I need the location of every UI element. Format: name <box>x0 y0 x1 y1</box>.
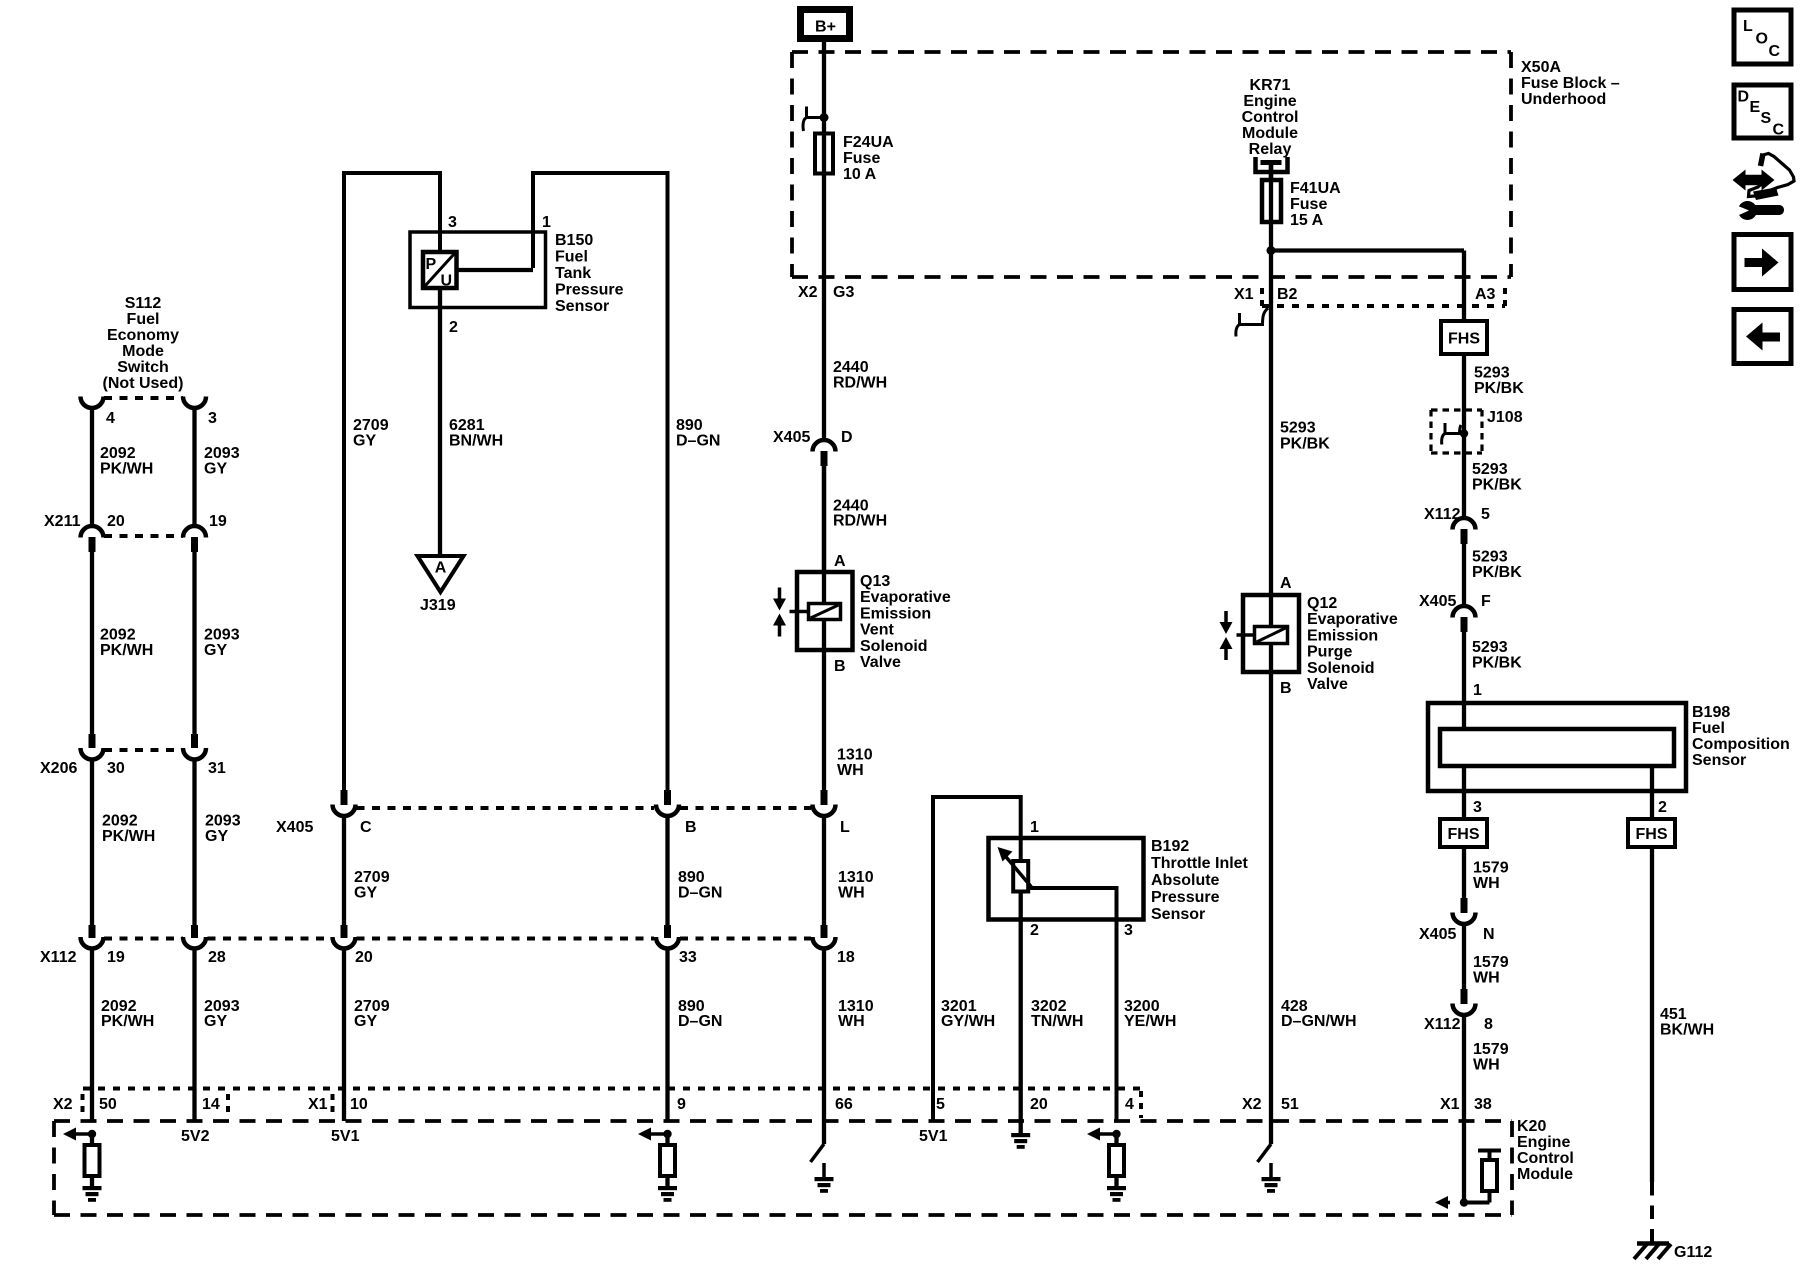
svg-text:1: 1 <box>542 214 551 231</box>
svg-text:2440: 2440 <box>833 359 869 376</box>
svg-text:Module: Module <box>1242 125 1298 142</box>
svg-text:TN/WH: TN/WH <box>1031 1013 1083 1030</box>
svg-text:451: 451 <box>1660 1006 1687 1023</box>
fuse F24UA 10 A <box>815 134 833 174</box>
svg-text:Control: Control <box>1242 109 1299 126</box>
icon DESC box <box>1734 85 1791 138</box>
B192 potentiometer arrow <box>1004 855 1031 887</box>
sensor B192 box <box>989 838 1144 920</box>
svg-text:E: E <box>1750 99 1761 116</box>
wire B150 pin2 through sensor <box>438 288 442 554</box>
wire 2092 PK/WH segment X211.20 to X206.30 <box>90 551 94 734</box>
connector X405 cavity pin F <box>1453 606 1476 618</box>
ground symbol at pin 66 <box>815 1177 834 1181</box>
svg-text:X1: X1 <box>1440 1096 1460 1113</box>
svg-text:X211: X211 <box>44 513 81 530</box>
svg-text:Pressure: Pressure <box>555 282 624 299</box>
wire 890 D-GN segment X112.33 to ECM pin 9 <box>665 948 669 1121</box>
svg-text:Engine: Engine <box>1517 1134 1570 1151</box>
icon LOC box <box>1734 10 1791 64</box>
svg-text:1: 1 <box>1030 819 1039 836</box>
connector X206 terminal pin 31 <box>191 734 198 748</box>
svg-text:GY/WH: GY/WH <box>941 1013 995 1030</box>
svg-text:F24UA: F24UA <box>843 134 894 151</box>
svg-text:N: N <box>1483 926 1495 943</box>
svg-text:Module: Module <box>1517 1166 1573 1183</box>
svg-text:18: 18 <box>837 949 855 966</box>
svg-text:1310: 1310 <box>837 747 873 764</box>
svg-text:X2: X2 <box>798 284 818 301</box>
svg-text:2092: 2092 <box>102 813 138 830</box>
svg-text:Fuel: Fuel <box>1692 720 1725 737</box>
connector X405 terminal pin C <box>341 790 348 805</box>
svg-text:L: L <box>840 819 850 836</box>
svg-text:Tank: Tank <box>555 265 591 282</box>
wire 5293 PK/BK X112.5 to X405.F <box>1462 543 1466 606</box>
svg-text:Throttle Inlet: Throttle Inlet <box>1151 855 1249 872</box>
svg-text:X2: X2 <box>53 1096 73 1113</box>
svg-text:890: 890 <box>676 417 703 434</box>
wire 2093 GY segment X206.31 to X112.28 <box>192 759 196 925</box>
svg-text:Mode: Mode <box>122 343 164 360</box>
connector X405 terminal pin B <box>664 790 671 805</box>
ground symbol at pin 50 <box>83 1186 102 1190</box>
power feed B+ box <box>801 10 850 39</box>
svg-text:X405: X405 <box>773 429 810 446</box>
svg-text:WH: WH <box>838 1013 865 1030</box>
svg-text:Q13: Q13 <box>860 573 890 590</box>
svg-text:31: 31 <box>208 760 226 777</box>
svg-text:2: 2 <box>449 319 458 336</box>
svg-text:6281: 6281 <box>449 417 485 434</box>
svg-text:20: 20 <box>1030 1096 1048 1113</box>
Q13 valve symbol <box>778 588 782 599</box>
svg-text:B150: B150 <box>555 232 593 249</box>
svg-text:2093: 2093 <box>204 445 240 462</box>
svg-text:KR71: KR71 <box>1250 77 1291 94</box>
svg-text:5V1: 5V1 <box>919 1128 948 1145</box>
svg-text:Control: Control <box>1517 1150 1574 1167</box>
svg-text:D–GN: D–GN <box>678 1013 722 1030</box>
svg-text:Emission: Emission <box>1307 627 1378 644</box>
wire 2092 PK/WH segment X112.19 to ECM X2.50 <box>90 948 94 1121</box>
solenoid valve Q13 box <box>797 572 853 650</box>
wire 1579 WH FHS to X405.N <box>1462 847 1466 898</box>
svg-text:D: D <box>841 429 853 446</box>
svg-text:19: 19 <box>107 949 125 966</box>
svg-text:2: 2 <box>1030 922 1039 939</box>
svg-text:Absolute: Absolute <box>1151 872 1220 889</box>
wire junction to A3 <box>1271 248 1464 252</box>
svg-text:20: 20 <box>107 513 125 530</box>
svg-text:Emission: Emission <box>860 605 931 622</box>
svg-text:S: S <box>1761 110 1772 127</box>
svg-text:WH: WH <box>1473 1057 1500 1074</box>
svg-text:PK/BK: PK/BK <box>1472 477 1522 494</box>
connector X1 row of fuse block (dotted) <box>1262 304 1505 308</box>
svg-text:33: 33 <box>679 949 697 966</box>
svg-text:5: 5 <box>1481 506 1490 523</box>
Q12 coil stub <box>1237 633 1255 637</box>
svg-text:1310: 1310 <box>838 869 874 886</box>
svg-text:9: 9 <box>677 1096 686 1113</box>
svg-text:1579: 1579 <box>1473 954 1509 971</box>
svg-text:Solenoid: Solenoid <box>860 638 928 655</box>
svg-text:5: 5 <box>936 1096 945 1113</box>
clip symbol at F24UA feed <box>803 107 824 132</box>
svg-text:K20: K20 <box>1517 1118 1546 1135</box>
svg-text:66: 66 <box>835 1096 853 1113</box>
ECM internal: pin 50 resistor <box>90 1134 94 1145</box>
wire 2092 PK/WH segment X206.30 to X112.19 <box>90 759 94 925</box>
svg-text:D: D <box>1738 89 1750 106</box>
svg-text:Fuse: Fuse <box>1290 196 1327 213</box>
svg-text:X112: X112 <box>1424 506 1461 523</box>
svg-text:L: L <box>1743 18 1753 35</box>
svg-text:1: 1 <box>1473 682 1482 699</box>
svg-text:Q12: Q12 <box>1307 595 1337 612</box>
svg-text:4: 4 <box>106 410 115 427</box>
ECM internal: pin 20 ground lead <box>1019 1121 1023 1133</box>
svg-text:PK/WH: PK/WH <box>100 642 153 659</box>
relay KR71 contact symbol <box>1256 157 1288 172</box>
Q12 valve symbol <box>1224 611 1228 622</box>
svg-text:GY: GY <box>205 828 228 845</box>
svg-text:B: B <box>1280 680 1292 697</box>
wire 2709 GY segment X405.C to X112.20 <box>342 815 346 925</box>
ground G112 symbol <box>1637 1241 1669 1246</box>
splice FHS box (pin 2) <box>1628 819 1675 847</box>
svg-text:3: 3 <box>448 214 457 231</box>
ECM internal: pin 9 resistor <box>665 1134 669 1145</box>
wire 2093 GY segment X112.28 to ECM X2.14 <box>192 948 196 1121</box>
ground symbol at pin 9 <box>658 1186 677 1190</box>
svg-text:C: C <box>360 819 372 836</box>
svg-text:Valve: Valve <box>860 654 901 671</box>
B150 P/U transducer symbol <box>423 252 457 288</box>
svg-text:BN/WH: BN/WH <box>449 433 503 450</box>
svg-text:PK/BK: PK/BK <box>1472 564 1522 581</box>
wire B198.3 down <box>1462 766 1466 819</box>
splice J108 dashed box <box>1431 408 1482 411</box>
svg-text:2709: 2709 <box>353 417 389 434</box>
icon forward arrow box <box>1734 235 1791 290</box>
module K20 ECM dashed box <box>54 1119 1512 1123</box>
svg-text:YE/WH: YE/WH <box>1124 1013 1176 1030</box>
B192 potentiometer element <box>1013 861 1028 892</box>
svg-text:WH: WH <box>1473 875 1500 892</box>
svg-text:B198: B198 <box>1692 704 1730 721</box>
Q12 solenoid coil <box>1255 627 1288 644</box>
svg-text:890: 890 <box>678 869 705 886</box>
svg-text:GY: GY <box>354 1013 377 1030</box>
svg-text:Fuel: Fuel <box>555 249 588 266</box>
svg-text:2093: 2093 <box>205 813 241 830</box>
B192 wiper wire <box>1029 888 1117 1121</box>
wire 5293 PK/BK X405.F to B198.1 <box>1462 631 1466 729</box>
connector X112 terminal pin 28 <box>191 925 198 938</box>
svg-text:5293: 5293 <box>1472 549 1508 566</box>
svg-text:5293: 5293 <box>1472 461 1508 478</box>
svg-text:15 A: 15 A <box>1290 212 1324 229</box>
svg-text:1579: 1579 <box>1473 860 1509 877</box>
svg-text:X50A: X50A <box>1521 59 1561 76</box>
connector X112 terminal pin 33 <box>664 925 671 938</box>
svg-text:X405: X405 <box>1419 926 1456 943</box>
svg-text:Switch: Switch <box>117 359 169 376</box>
splice FHS box <box>1441 321 1487 354</box>
svg-text:Composition: Composition <box>1692 736 1790 753</box>
svg-text:A: A <box>435 560 447 577</box>
svg-text:Sensor: Sensor <box>1692 752 1746 769</box>
junction node <box>1267 246 1276 255</box>
clip symbol below B2 <box>1236 308 1268 337</box>
svg-text:Fuse: Fuse <box>843 150 880 167</box>
connector X405 terminal pin L <box>821 790 828 805</box>
wire through Q13 <box>822 466 826 790</box>
ECM internal: pin 4 resistor <box>1114 1134 1118 1145</box>
svg-text:J319: J319 <box>420 597 456 614</box>
wire F41UA to junction <box>1269 162 1273 672</box>
svg-text:X405: X405 <box>276 819 313 836</box>
svg-text:Valve: Valve <box>1307 676 1348 693</box>
svg-text:C: C <box>1769 43 1781 60</box>
connector X112 terminal pin 19 <box>89 925 96 938</box>
svg-text:3: 3 <box>1124 922 1133 939</box>
svg-text:Economy: Economy <box>107 327 179 344</box>
wire A3 to FHS <box>1462 251 1466 322</box>
fuse F41UA 15 A <box>1262 180 1281 222</box>
svg-text:10: 10 <box>350 1096 368 1113</box>
wire B198.2 down <box>1650 766 1654 819</box>
svg-text:4: 4 <box>1125 1096 1134 1113</box>
svg-text:B: B <box>685 819 697 836</box>
wire 1579 WH X405.N to X112.8 <box>1462 923 1466 989</box>
svg-text:30: 30 <box>107 760 125 777</box>
svg-text:RD/WH: RD/WH <box>833 513 887 530</box>
svg-text:A3: A3 <box>1475 286 1496 303</box>
svg-text:10 A: 10 A <box>843 166 877 183</box>
svg-text:X405: X405 <box>1419 593 1456 610</box>
wire 2709 GY segment X112.20 to ECM X1.10 <box>342 948 346 1121</box>
wire B+ to fuse F24UA <box>822 42 826 440</box>
svg-text:S112: S112 <box>125 295 162 312</box>
connector X206 row (dashed) <box>104 748 183 752</box>
splice FHS box (pin 3) <box>1440 819 1487 847</box>
ground symbol at pin 20 <box>1011 1133 1030 1137</box>
svg-text:PK/BK: PK/BK <box>1280 436 1330 453</box>
svg-text:FHS: FHS <box>1448 331 1480 348</box>
connector X405 row (dashed) <box>357 806 655 810</box>
S112 pin 3 connector cavity <box>183 397 206 409</box>
svg-text:38: 38 <box>1474 1096 1492 1113</box>
svg-text:Purge: Purge <box>1307 644 1352 661</box>
svg-text:Solenoid: Solenoid <box>1307 660 1375 677</box>
svg-text:2092: 2092 <box>100 627 136 644</box>
connector X112 row (dashed) <box>104 937 183 941</box>
wire 5293 PK/BK FHS to J108 <box>1462 354 1466 518</box>
svg-text:2092: 2092 <box>100 445 136 462</box>
svg-text:Engine: Engine <box>1243 93 1296 110</box>
svg-text:2093: 2093 <box>204 627 240 644</box>
icon back arrow box <box>1734 310 1791 364</box>
svg-text:Underhood: Underhood <box>1521 91 1606 108</box>
svg-text:PK/WH: PK/WH <box>101 1013 154 1030</box>
svg-text:5293: 5293 <box>1472 639 1508 656</box>
svg-text:14: 14 <box>202 1096 220 1113</box>
svg-text:FHS: FHS <box>1448 826 1480 843</box>
wire 2709 GY top loop B150.3 <box>344 173 440 790</box>
clip symbol inside J108 <box>1442 423 1461 445</box>
svg-text:5293: 5293 <box>1280 420 1316 437</box>
svg-text:Fuse Block –: Fuse Block – <box>1521 75 1620 92</box>
wire 1310 WH segment X112.18 to ECM pin 66 <box>822 948 826 1121</box>
connector X405 terminal pin N <box>1461 898 1468 913</box>
svg-text:GY: GY <box>204 642 227 659</box>
connector X211 cavity pin 20 <box>81 526 104 538</box>
svg-text:5V2: 5V2 <box>181 1128 210 1145</box>
svg-text:GY: GY <box>353 433 376 450</box>
svg-text:Evaporative: Evaporative <box>1307 611 1398 628</box>
svg-text:PK/WH: PK/WH <box>102 828 155 845</box>
svg-text:Relay: Relay <box>1249 141 1292 158</box>
svg-text:WH: WH <box>1473 970 1500 987</box>
svg-text:J108: J108 <box>1487 409 1523 426</box>
wire 1579 WH X112.8 to ECM X1.38 <box>1462 1014 1466 1121</box>
ground symbol at pin 51 <box>1262 1177 1281 1181</box>
ECM pin row (dotted) <box>83 1087 1141 1091</box>
connector X112 terminal pin 20 <box>341 925 348 938</box>
svg-text:X2: X2 <box>1242 1096 1262 1113</box>
splice pack J319 (triangle A) <box>418 556 464 592</box>
svg-text:GY: GY <box>204 461 227 478</box>
wire 1310 WH segment X405.L to X112.18 <box>822 815 826 925</box>
wire 3202 TN/WH from B192.2 <box>1019 892 1023 1122</box>
connector X211 row (dashed) <box>104 534 183 538</box>
svg-text:Sensor: Sensor <box>555 298 609 315</box>
svg-text:GY: GY <box>354 885 377 902</box>
svg-text:PK/BK: PK/BK <box>1474 380 1524 397</box>
svg-text:PK/BK: PK/BK <box>1472 655 1522 672</box>
connector X206 terminal pin 30 <box>89 734 96 748</box>
svg-text:B2: B2 <box>1277 286 1298 303</box>
svg-text:X112: X112 <box>1424 1016 1461 1033</box>
svg-text:FHS: FHS <box>1636 826 1668 843</box>
wire 2093 GY segment S112.3 to X211.19 <box>192 407 196 527</box>
connector X112 terminal pin 8 <box>1461 989 1468 1004</box>
svg-text:F: F <box>1481 593 1491 610</box>
svg-text:5V1: 5V1 <box>331 1128 360 1145</box>
svg-text:1579: 1579 <box>1473 1041 1509 1058</box>
svg-text:20: 20 <box>355 949 373 966</box>
connector X405 cavity pin D <box>813 440 836 451</box>
svg-text:3: 3 <box>1473 799 1482 816</box>
svg-text:Fuel: Fuel <box>127 311 160 328</box>
svg-text:Evaporative: Evaporative <box>860 589 951 606</box>
svg-text:GY: GY <box>204 1013 227 1030</box>
svg-text:5293: 5293 <box>1474 365 1510 382</box>
svg-text:B: B <box>834 658 846 675</box>
fuse block X50A dashed box <box>792 50 1511 54</box>
svg-text:C: C <box>1773 122 1785 139</box>
svg-text:O: O <box>1756 31 1768 48</box>
svg-text:B+: B+ <box>815 19 836 36</box>
ECM internal: pin 38 pull-up resistor <box>1462 1121 1466 1203</box>
svg-text:X1: X1 <box>1234 286 1254 303</box>
svg-text:2: 2 <box>1658 799 1667 816</box>
svg-text:U: U <box>441 273 453 290</box>
svg-text:Pressure: Pressure <box>1151 889 1220 906</box>
svg-text:X1: X1 <box>308 1096 328 1113</box>
svg-text:28: 28 <box>208 949 226 966</box>
wire 890 D-GN segment X405.B to X112.33 <box>665 815 669 925</box>
svg-text:19: 19 <box>209 513 227 530</box>
svg-text:G112: G112 <box>1674 1244 1712 1261</box>
svg-text:BK/WH: BK/WH <box>1660 1022 1714 1039</box>
svg-text:D–GN: D–GN <box>676 433 720 450</box>
wire 428 D-GN/WH Q12.B to ECM X2.51 <box>1269 672 1273 1121</box>
svg-text:Vent: Vent <box>860 622 894 639</box>
wire 2093 GY segment X211.19 to X206.31 <box>192 551 196 734</box>
svg-text:Sensor: Sensor <box>1151 906 1205 923</box>
connector X112 terminal pin 18 <box>821 925 828 938</box>
Q13 solenoid coil <box>809 604 841 620</box>
ECM internal switch at pin 66 <box>822 1121 826 1144</box>
connector X211 cavity pin 19 <box>183 526 206 538</box>
svg-text:X112: X112 <box>40 949 77 966</box>
S112 pin 4 connector cavity <box>81 397 104 409</box>
svg-text:D–GN: D–GN <box>678 885 722 902</box>
ECM internal: pin 4 arrow <box>1096 1132 1117 1136</box>
sensor B150 box <box>410 232 546 308</box>
svg-text:G3: G3 <box>833 284 854 301</box>
ECM internal: pin 50 arrow <box>72 1132 92 1136</box>
ground symbol at pin 4 <box>1107 1186 1126 1190</box>
svg-text:B192: B192 <box>1151 838 1189 855</box>
svg-text:A: A <box>1280 575 1292 592</box>
wire 890 D-GN top loop B150.1 <box>533 173 668 790</box>
svg-text:PK/WH: PK/WH <box>100 461 153 478</box>
ECM internal: pin 9 arrow <box>647 1132 668 1136</box>
svg-text:F41UA: F41UA <box>1290 180 1341 197</box>
wire P/U to pin 1 <box>457 268 534 272</box>
switch S112 outline (dashed) <box>104 396 183 400</box>
B198 element box <box>1440 729 1674 766</box>
sensor B198 box <box>1428 703 1686 791</box>
svg-text:P: P <box>426 256 437 273</box>
wire 2440 RD/WH segment X405.D to Q13.A <box>822 466 826 572</box>
Q13 coil stub <box>790 610 809 614</box>
svg-text:50: 50 <box>99 1096 117 1113</box>
svg-text:8: 8 <box>1484 1016 1493 1033</box>
svg-text:WH: WH <box>837 762 864 779</box>
ECM internal switch at pin 51 <box>1269 1121 1273 1144</box>
svg-text:A: A <box>834 553 846 570</box>
icon diagnostic arrows and wrench <box>1733 170 1775 191</box>
svg-text:(Not Used): (Not Used) <box>103 375 184 392</box>
svg-text:D–GN/WH: D–GN/WH <box>1281 1013 1357 1030</box>
wire 451 BK/WH B198.2 to G112 <box>1650 847 1654 1182</box>
svg-text:X206: X206 <box>40 760 77 777</box>
svg-text:3: 3 <box>208 410 217 427</box>
connector X112 cavity pin 5 <box>1453 518 1476 530</box>
solenoid valve Q12 box <box>1243 595 1299 672</box>
svg-text:RD/WH: RD/WH <box>833 375 887 392</box>
wire 2092 PK/WH segment S112.4 to X211.20 <box>90 407 94 527</box>
svg-text:2709: 2709 <box>354 869 390 886</box>
svg-text:WH: WH <box>838 885 865 902</box>
wire 3201 GY/WH loop B192.1 <box>933 797 1021 1121</box>
